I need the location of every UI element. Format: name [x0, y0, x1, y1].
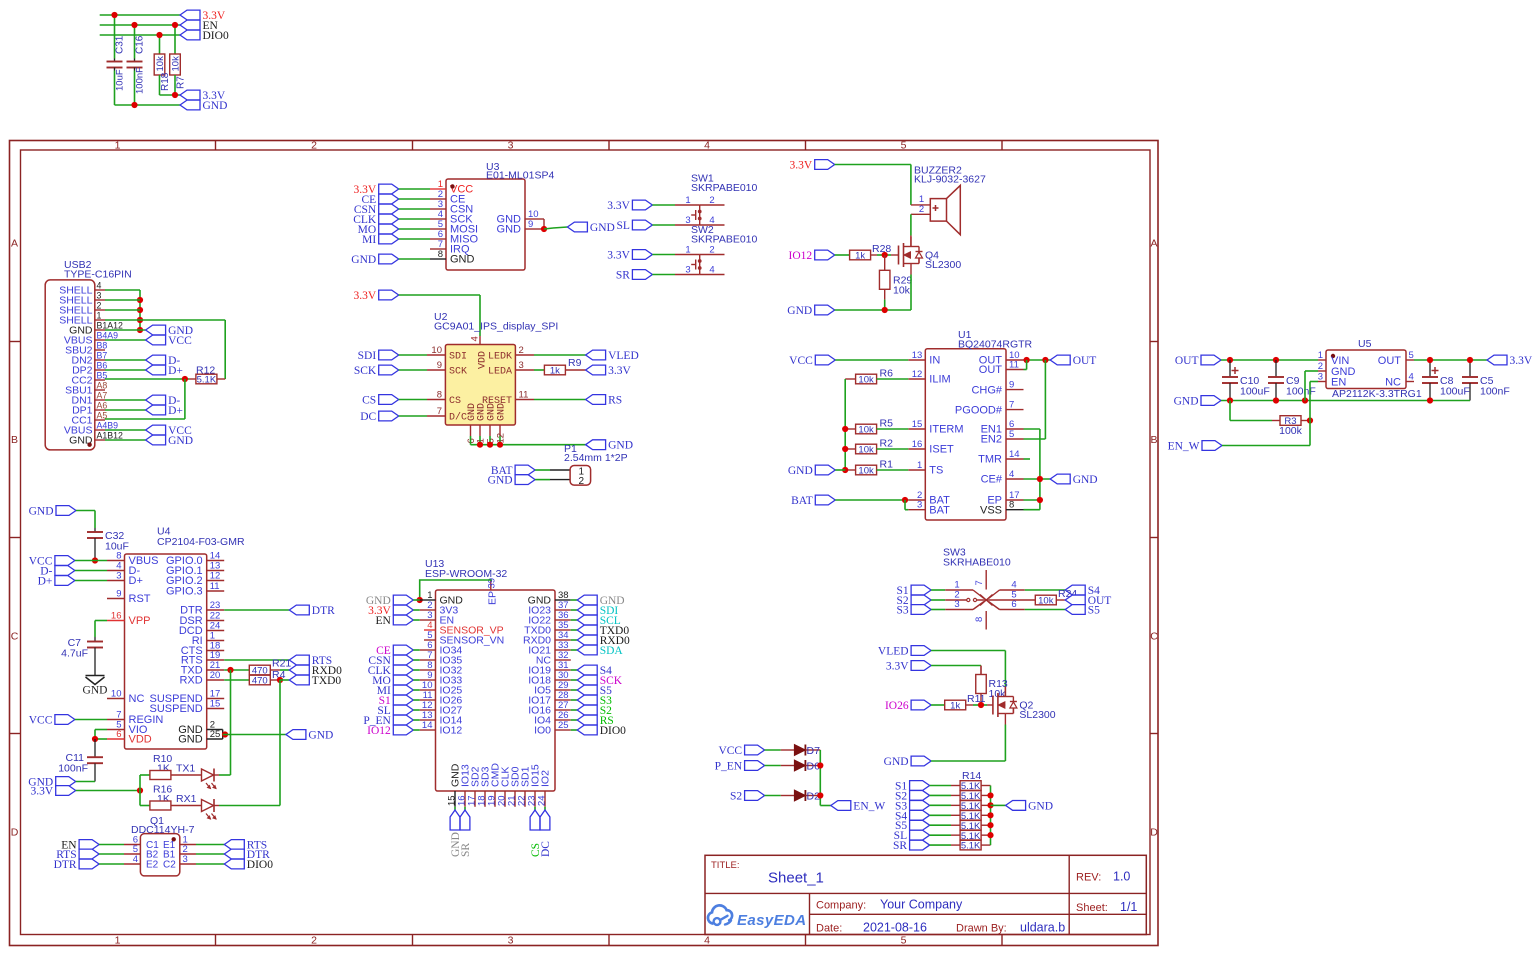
svg-text:3.3V: 3.3V	[886, 661, 909, 673]
svg-text:ILIM: ILIM	[929, 374, 950, 386]
svg-text:9: 9	[1009, 380, 1014, 391]
svg-text:2.54mm 1*2P: 2.54mm 1*2P	[564, 452, 628, 464]
svg-text:GND: GND	[787, 305, 812, 317]
svg-text:GND: GND	[1028, 800, 1053, 812]
svg-text:1: 1	[917, 460, 922, 471]
svg-text:A7: A7	[97, 391, 108, 401]
svg-text:Date:: Date:	[816, 923, 842, 935]
svg-text:GND: GND	[788, 465, 813, 477]
svg-text:3.3V: 3.3V	[354, 290, 377, 302]
svg-text:3: 3	[685, 265, 690, 276]
svg-text:VSS: VSS	[980, 504, 1002, 516]
svg-text:R6: R6	[880, 368, 894, 380]
svg-text:3: 3	[685, 215, 690, 226]
svg-text:EN_W: EN_W	[1168, 441, 1200, 453]
svg-text:4: 4	[709, 265, 714, 276]
svg-text:VLED: VLED	[878, 646, 909, 658]
svg-text:S2: S2	[730, 791, 742, 803]
svg-text:VCC: VCC	[29, 715, 53, 727]
svg-text:DIO0: DIO0	[247, 859, 273, 871]
svg-text:U5: U5	[1358, 338, 1372, 350]
svg-text:16: 16	[111, 611, 122, 622]
svg-text:RST: RST	[129, 593, 151, 605]
svg-text:GND: GND	[351, 254, 376, 266]
svg-text:8: 8	[1009, 500, 1014, 511]
svg-text:B1A12: B1A12	[97, 321, 124, 331]
svg-text:15: 15	[210, 699, 221, 710]
svg-text:R5: R5	[880, 418, 894, 430]
svg-text:20: 20	[210, 670, 221, 681]
svg-text:11: 11	[210, 581, 220, 592]
svg-text:GND: GND	[29, 506, 54, 518]
svg-text:IO26: IO26	[885, 700, 909, 712]
svg-text:A: A	[1150, 238, 1157, 250]
svg-text:5.1K: 5.1K	[961, 841, 981, 852]
svg-text:VLED: VLED	[608, 350, 639, 362]
svg-text:12: 12	[210, 571, 221, 582]
svg-text:A6: A6	[97, 401, 108, 411]
svg-text:P_EN: P_EN	[715, 761, 743, 773]
svg-text:uldara.b: uldara.b	[1020, 921, 1065, 935]
svg-text:NC: NC	[1385, 377, 1401, 389]
svg-text:3: 3	[508, 935, 514, 947]
svg-text:3.3V: 3.3V	[607, 200, 630, 212]
svg-text:AP2112K-3.3TRG1: AP2112K-3.3TRG1	[1332, 388, 1422, 400]
svg-text:3.3V: 3.3V	[1510, 355, 1533, 367]
svg-text:C16: C16	[134, 35, 145, 54]
svg-text:KLJ-9032-3627: KLJ-9032-3627	[914, 174, 986, 186]
svg-text:Drawn By:: Drawn By:	[956, 923, 1007, 935]
svg-text:Sheet_1: Sheet_1	[768, 870, 824, 887]
svg-text:3: 3	[917, 500, 922, 511]
svg-text:1/1: 1/1	[1120, 900, 1137, 914]
svg-text:ITERM: ITERM	[929, 424, 963, 436]
svg-text:Sheet:: Sheet:	[1076, 902, 1108, 914]
svg-text:2: 2	[709, 195, 714, 206]
svg-text:100uF: 100uF	[1440, 386, 1470, 398]
svg-text:R7: R7	[175, 76, 186, 89]
svg-text:25: 25	[210, 729, 221, 740]
svg-text:1: 1	[1318, 350, 1323, 361]
svg-text:8: 8	[974, 617, 985, 622]
svg-text:8: 8	[437, 390, 442, 401]
svg-text:BQ24074RGTR: BQ24074RGTR	[958, 339, 1033, 351]
svg-text:5: 5	[901, 140, 907, 152]
svg-text:Your Company: Your Company	[880, 898, 963, 912]
svg-text:1: 1	[115, 935, 121, 947]
svg-text:5: 5	[1009, 429, 1014, 440]
svg-text:EP: EP	[487, 591, 499, 605]
svg-text:4: 4	[133, 854, 138, 865]
svg-text:2: 2	[919, 204, 924, 215]
svg-text:C2: C2	[163, 860, 176, 871]
svg-text:1k: 1k	[550, 366, 560, 377]
svg-text:470: 470	[252, 676, 268, 687]
svg-text:LEDA: LEDA	[488, 367, 512, 378]
svg-text:1: 1	[115, 140, 121, 152]
svg-text:10: 10	[431, 345, 442, 356]
svg-text:GND: GND	[1073, 474, 1098, 486]
svg-text:GND: GND	[1174, 396, 1199, 408]
svg-text:2: 2	[97, 301, 102, 311]
svg-text:10k: 10k	[858, 466, 874, 477]
svg-text:D+: D+	[129, 575, 143, 587]
svg-text:R2: R2	[880, 438, 894, 450]
svg-text:100nF: 100nF	[134, 67, 145, 94]
svg-text:6: 6	[116, 729, 121, 740]
svg-text:3: 3	[183, 854, 188, 865]
svg-text:2: 2	[579, 476, 585, 487]
svg-text:B4A9: B4A9	[97, 331, 119, 341]
svg-text:4.7uF: 4.7uF	[61, 648, 88, 660]
svg-text:OUT: OUT	[979, 364, 1003, 376]
svg-text:2021-08-16: 2021-08-16	[863, 921, 927, 935]
svg-text:13: 13	[912, 350, 923, 361]
svg-text:SR: SR	[893, 840, 907, 852]
svg-text:10k: 10k	[858, 445, 874, 456]
svg-text:R18: R18	[160, 72, 171, 91]
svg-text:14: 14	[1009, 449, 1020, 460]
svg-text:GND: GND	[168, 435, 193, 447]
svg-text:2: 2	[311, 140, 317, 152]
svg-text:3.3V: 3.3V	[790, 160, 813, 172]
svg-text:3: 3	[519, 360, 524, 371]
svg-text:9: 9	[528, 219, 533, 230]
svg-text:1k: 1k	[950, 701, 960, 712]
svg-text:GND: GND	[497, 224, 522, 236]
svg-text:GND: GND	[83, 685, 108, 697]
svg-text:12: 12	[912, 369, 923, 380]
svg-text:DIO0: DIO0	[203, 30, 229, 42]
svg-text:SL: SL	[616, 220, 629, 232]
svg-text:11: 11	[1009, 360, 1019, 371]
svg-text:MI: MI	[362, 234, 376, 246]
svg-text:SKRHABE010: SKRHABE010	[943, 557, 1011, 569]
svg-text:RXD: RXD	[179, 675, 202, 687]
svg-text:OUT: OUT	[1378, 355, 1402, 367]
svg-text:100k: 100k	[1279, 425, 1303, 437]
svg-text:IO0: IO0	[534, 725, 551, 737]
svg-text:CS: CS	[449, 396, 461, 407]
svg-text:2: 2	[311, 935, 317, 947]
svg-text:B: B	[11, 434, 18, 446]
svg-text:D/C: D/C	[449, 412, 467, 424]
svg-text:9: 9	[116, 589, 121, 600]
svg-text:SCK: SCK	[354, 365, 377, 377]
svg-text:D+: D+	[168, 405, 183, 417]
svg-text:10uF: 10uF	[114, 69, 125, 91]
svg-text:DIO0: DIO0	[600, 725, 626, 737]
svg-text:SDI: SDI	[449, 352, 467, 363]
svg-text:5: 5	[901, 935, 907, 947]
svg-text:GND: GND	[178, 734, 203, 746]
svg-text:D7: D7	[807, 745, 821, 757]
svg-text:TITLE:: TITLE:	[711, 860, 740, 871]
svg-text:EN: EN	[1331, 377, 1346, 389]
svg-text:SKRPABE010: SKRPABE010	[691, 182, 758, 194]
svg-text:CP2104-F03-GMR: CP2104-F03-GMR	[157, 536, 245, 548]
svg-text:C: C	[1150, 631, 1158, 643]
svg-text:4: 4	[470, 336, 481, 341]
svg-text:CS: CS	[362, 395, 376, 407]
svg-text:7: 7	[437, 406, 442, 417]
svg-text:TXD0: TXD0	[312, 675, 342, 687]
svg-text:3: 3	[954, 599, 959, 610]
svg-text:R1: R1	[880, 459, 894, 471]
svg-text:D+: D+	[38, 576, 53, 588]
svg-text:A8: A8	[97, 381, 108, 391]
svg-text:D: D	[1150, 827, 1158, 839]
svg-text:D: D	[11, 827, 19, 839]
svg-text:B8: B8	[97, 341, 108, 351]
svg-text:LEDK: LEDK	[488, 352, 512, 363]
svg-text:24: 24	[537, 795, 548, 806]
svg-text:SDA: SDA	[600, 645, 624, 657]
svg-text:E01-ML01SP4: E01-ML01SP4	[486, 170, 554, 182]
svg-text:IO12: IO12	[440, 725, 463, 737]
svg-text:3: 3	[116, 571, 121, 582]
svg-text:REV:: REV:	[1076, 872, 1101, 884]
svg-text:R21: R21	[272, 658, 291, 670]
svg-text:SDI: SDI	[358, 350, 377, 362]
svg-text:GND: GND	[884, 756, 909, 768]
svg-text:6: 6	[1011, 599, 1016, 610]
svg-text:25: 25	[558, 720, 569, 731]
svg-text:16: 16	[912, 439, 923, 450]
svg-text:R12: R12	[196, 365, 215, 377]
svg-text:EasyEDA: EasyEDA	[737, 912, 807, 929]
svg-text:3.3V: 3.3V	[607, 250, 630, 262]
svg-text:1k: 1k	[855, 251, 865, 262]
svg-text:DTR: DTR	[312, 605, 335, 617]
svg-text:SCK: SCK	[449, 367, 467, 378]
svg-text:VPP: VPP	[129, 615, 151, 627]
svg-text:10k: 10k	[858, 425, 874, 436]
svg-text:23: 23	[210, 600, 221, 611]
svg-text:GND: GND	[590, 222, 615, 234]
svg-text:11: 11	[519, 390, 529, 401]
svg-text:SR: SR	[460, 843, 472, 857]
svg-text:SR: SR	[616, 270, 630, 282]
svg-text:EN_W: EN_W	[853, 801, 885, 813]
svg-text:1.0: 1.0	[1113, 870, 1130, 884]
svg-text:10k: 10k	[1038, 596, 1054, 607]
svg-text:10k: 10k	[170, 56, 181, 72]
svg-text:VDD: VDD	[129, 734, 152, 746]
svg-text:GND: GND	[308, 730, 333, 742]
svg-text:VDD: VDD	[478, 351, 489, 369]
svg-text:IO2: IO2	[540, 770, 552, 787]
svg-text:100nF: 100nF	[58, 763, 88, 775]
svg-text:9: 9	[437, 360, 442, 371]
svg-text:4: 4	[1009, 469, 1014, 480]
svg-text:100nF: 100nF	[1480, 386, 1510, 398]
svg-text:TYPE-C16PIN: TYPE-C16PIN	[64, 269, 132, 281]
svg-text:E2: E2	[146, 860, 159, 871]
svg-text:TX1: TX1	[176, 763, 195, 775]
svg-text:14: 14	[422, 720, 433, 731]
svg-text:10k: 10k	[893, 285, 911, 297]
svg-text:EN2: EN2	[981, 434, 1002, 446]
svg-text:VCC: VCC	[718, 745, 742, 757]
svg-text:2: 2	[709, 245, 714, 256]
svg-text:A: A	[11, 238, 18, 250]
svg-text:GND: GND	[608, 440, 633, 452]
svg-text:RS: RS	[608, 395, 622, 407]
svg-text:A1B12: A1B12	[97, 431, 124, 441]
svg-text:B6: B6	[97, 361, 108, 371]
svg-text:GND: GND	[488, 475, 513, 487]
svg-text:A4B9: A4B9	[97, 421, 119, 431]
svg-text:7: 7	[1009, 400, 1014, 411]
svg-text:SKRPABE010: SKRPABE010	[691, 234, 758, 246]
svg-text:1: 1	[685, 195, 690, 206]
svg-text:C: C	[11, 631, 19, 643]
svg-text:D+: D+	[168, 365, 183, 377]
svg-text:10k: 10k	[858, 375, 874, 386]
svg-text:DTR: DTR	[54, 859, 77, 871]
svg-text:VCC: VCC	[789, 355, 813, 367]
svg-text:S5: S5	[1088, 605, 1100, 617]
svg-text:SL2300: SL2300	[925, 259, 961, 271]
svg-text:OUT: OUT	[1073, 355, 1097, 367]
svg-text:SUSPEND: SUSPEND	[150, 703, 203, 715]
svg-text:BAT: BAT	[929, 504, 950, 516]
svg-text:S3: S3	[896, 605, 908, 617]
svg-text:15: 15	[912, 419, 923, 430]
svg-text:10: 10	[111, 689, 122, 700]
svg-text:7: 7	[974, 580, 985, 585]
svg-text:TS: TS	[929, 465, 943, 477]
svg-text:GND: GND	[450, 254, 475, 266]
svg-text:OUT: OUT	[1175, 355, 1199, 367]
svg-text:B: B	[1150, 434, 1157, 446]
svg-text:VCC: VCC	[168, 335, 192, 347]
svg-text:R9: R9	[568, 357, 582, 369]
svg-text:GND: GND	[497, 403, 508, 421]
svg-text:IO12: IO12	[367, 725, 391, 737]
svg-text:PGOOD#: PGOOD#	[955, 404, 1003, 416]
svg-text:8: 8	[438, 249, 443, 260]
svg-text:Company:: Company:	[816, 900, 866, 912]
svg-text:IN: IN	[929, 355, 940, 367]
svg-text:C31: C31	[114, 35, 125, 54]
svg-text:100uF: 100uF	[1240, 386, 1270, 398]
svg-text:GND: GND	[203, 100, 228, 112]
svg-text:RX1: RX1	[176, 793, 197, 805]
svg-text:2: 2	[519, 345, 524, 356]
svg-text:IO12: IO12	[789, 250, 813, 262]
svg-text:CHG#: CHG#	[971, 384, 1002, 396]
svg-text:B7: B7	[97, 351, 108, 361]
svg-text:1: 1	[97, 311, 102, 321]
svg-text:DC: DC	[360, 411, 376, 423]
svg-text:4: 4	[97, 281, 102, 291]
svg-text:3.3V: 3.3V	[31, 786, 54, 798]
svg-text:100nF: 100nF	[1286, 386, 1316, 398]
svg-text:4: 4	[704, 140, 710, 152]
svg-text:1: 1	[685, 245, 690, 256]
svg-text:NC: NC	[129, 693, 145, 705]
svg-text:SL2300: SL2300	[1019, 709, 1055, 721]
svg-text:ISET: ISET	[929, 444, 954, 456]
svg-text:3: 3	[97, 291, 102, 301]
svg-text:3: 3	[508, 140, 514, 152]
svg-text:TMR: TMR	[978, 454, 1002, 466]
svg-text:GPIO.3: GPIO.3	[166, 586, 203, 598]
svg-text:GC9A01_IPS_display_SPI: GC9A01_IPS_display_SPI	[434, 321, 558, 333]
svg-text:BAT: BAT	[791, 495, 813, 507]
svg-text:4: 4	[704, 935, 710, 947]
svg-text:R28: R28	[872, 243, 891, 255]
svg-text:CE#: CE#	[981, 474, 1003, 486]
svg-text:EN: EN	[375, 615, 391, 627]
svg-text:10k: 10k	[155, 56, 166, 72]
svg-text:3.3V: 3.3V	[608, 365, 631, 377]
svg-text:DC: DC	[540, 841, 552, 857]
